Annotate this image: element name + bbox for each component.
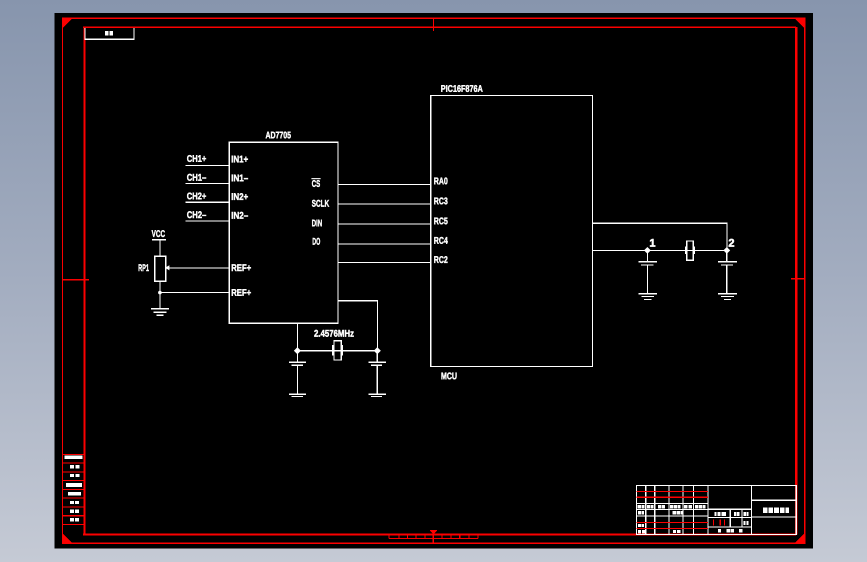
pin label RA0 <box>434 177 447 184</box>
drawing title blobs (right cell) <box>763 508 768 513</box>
bottom middle blobs <box>718 529 721 533</box>
resistor RP1 body <box>155 256 166 281</box>
pin label REF- (drawn REF+) <box>232 289 251 296</box>
wire PIC OSC2 to node 1 <box>592 249 647 251</box>
title block vertical dividers left grid <box>645 485 647 534</box>
centering tick right <box>791 278 805 280</box>
title block red line r1 <box>637 491 708 493</box>
op-amp U2 PIC16F876A body <box>431 95 593 366</box>
left grid horizontals <box>637 503 708 505</box>
crystal Y2 plates <box>685 247 687 254</box>
title block red line r3 <box>637 521 708 523</box>
wiper arrow of RP1 <box>165 265 169 270</box>
right section horizontals <box>752 499 797 501</box>
wire crystal row <box>297 350 377 352</box>
pin label RC4 <box>434 237 447 244</box>
title block red line r4 <box>637 528 708 530</box>
pin label DO <box>313 238 320 245</box>
node 2 label <box>729 239 734 247</box>
label CH2+ <box>187 193 206 200</box>
wire AD7705 pin to crystal node A <box>296 323 298 350</box>
wire CH2+ <box>186 201 230 203</box>
overline of CS <box>311 178 320 179</box>
pin label IN2+ <box>232 193 248 200</box>
labels (as paths) <box>139 85 735 379</box>
op-amp U1 AD7705 body <box>229 142 338 323</box>
left revision strip cell text blobs <box>65 456 83 522</box>
middle row1 blobs <box>714 512 716 516</box>
capacitor C3 <box>638 250 657 293</box>
title block middle/right divider <box>751 485 753 534</box>
capacitor C2 <box>369 351 386 394</box>
pin label RC5 <box>434 217 447 224</box>
pin label RC3 <box>434 197 447 204</box>
pin label IN2- <box>232 212 248 219</box>
capacitor C1 <box>289 351 306 394</box>
wire CS to RA0 <box>338 184 431 186</box>
pin label SCLK <box>312 200 329 207</box>
middle cell dividers <box>729 509 731 527</box>
wire REF- <box>160 292 229 294</box>
node junction RP1/REF- <box>158 291 162 295</box>
node 2 dot <box>723 247 730 254</box>
node B dot <box>374 347 381 354</box>
label MCU <box>441 372 456 379</box>
title block red ticks middle <box>713 519 715 525</box>
wire CH2- <box>186 220 230 222</box>
capacitor C4 <box>718 250 737 293</box>
corner triangle bottom-left <box>62 533 73 544</box>
label VCC <box>152 230 165 237</box>
pin label REF+ <box>232 264 251 271</box>
label CH2- <box>187 211 206 218</box>
corner triangle top-right <box>794 18 805 29</box>
crystal Y2 body <box>687 241 694 260</box>
centering tick left <box>63 279 90 281</box>
wire AD7705 right to crystal node B (L shape) <box>338 301 377 351</box>
wire REF+ <box>169 267 230 269</box>
label PIC16F876A <box>441 85 482 92</box>
middle section horizontals <box>708 508 752 510</box>
header row text blobs <box>638 505 641 509</box>
title block outer box <box>637 485 797 534</box>
outer red frame <box>63 18 805 543</box>
inner red frame top <box>83 26 796 28</box>
bottom scale bar <box>389 535 478 539</box>
wire DO to RC4 <box>338 243 431 245</box>
inner red frame right <box>795 27 797 534</box>
wire VCC to RP1 <box>159 240 161 256</box>
ground below RP1 <box>151 309 169 316</box>
label RP1 <box>139 264 149 271</box>
centering tick top <box>432 18 434 31</box>
top-left view box <box>85 28 134 39</box>
pin label DIN <box>312 220 322 227</box>
label AD7705 <box>266 132 291 139</box>
pin label CS <box>312 180 320 187</box>
wire SCLK to RC3 <box>338 203 431 205</box>
wire RP1 bottom <box>159 281 161 308</box>
label 2.4576MHz <box>314 330 353 337</box>
pin label RC2 <box>434 256 447 263</box>
label CH1- <box>187 174 206 181</box>
row2 text blobs <box>638 511 641 515</box>
wire DRDY to RC2 <box>338 262 431 264</box>
wire CH1+ <box>186 164 230 166</box>
ground below C3 <box>638 294 657 300</box>
ground below C2 <box>369 394 386 396</box>
corner triangle top-left <box>62 18 73 29</box>
node A dot <box>294 347 301 354</box>
title block red line r2 <box>637 496 708 498</box>
crystal Y1 body <box>334 341 341 360</box>
wire PIC OSC1 top to node 2 <box>592 223 726 250</box>
crystal Y1 plates <box>332 345 334 356</box>
ground below C4 <box>718 294 737 300</box>
wire CH1- <box>186 183 230 185</box>
ground below C1 <box>289 394 306 396</box>
junction dots <box>158 247 730 354</box>
bottom row text blobs <box>638 530 641 534</box>
middle 13 blob <box>744 521 746 525</box>
row3 text blobs <box>638 524 641 527</box>
pin label IN1+ <box>232 156 248 163</box>
wire crystal row right <box>647 249 726 251</box>
label CH1+ <box>187 155 206 162</box>
VCC power rail bar <box>152 239 166 241</box>
wire DIN to RC5 <box>338 223 431 225</box>
node 1 dot <box>644 247 651 254</box>
bottom center scale marker <box>430 530 437 544</box>
left revision strip dividers <box>63 454 85 524</box>
pin label IN1- <box>232 175 248 182</box>
inner red frame bottom <box>83 534 796 536</box>
node 1 label <box>650 239 655 247</box>
inner red frame left <box>83 27 85 534</box>
corner triangle bottom-right <box>794 533 805 544</box>
